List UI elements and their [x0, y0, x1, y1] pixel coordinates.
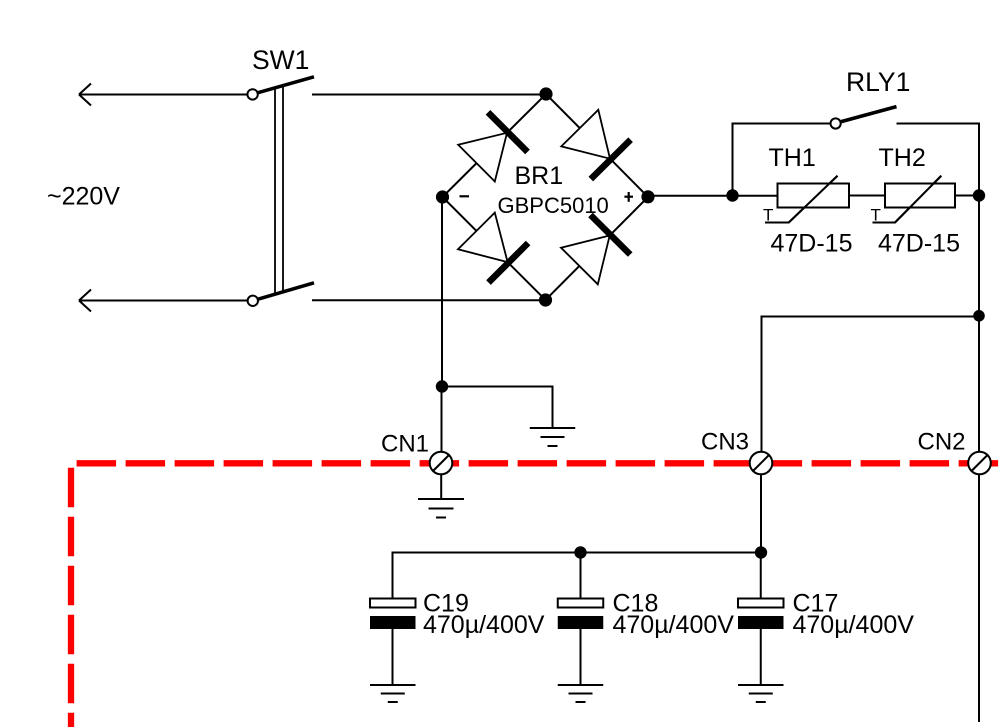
svg-text:TH1: TH1 [769, 144, 816, 172]
svg-text:47D-15: 47D-15 [771, 230, 853, 258]
svg-text:GBPC5010: GBPC5010 [498, 193, 609, 218]
svg-text:47D-15: 47D-15 [878, 230, 960, 258]
svg-text:CN3: CN3 [701, 429, 749, 456]
svg-text:SW1: SW1 [252, 45, 309, 75]
svg-text:470µ/400V: 470µ/400V [613, 611, 735, 639]
svg-text:BR1: BR1 [515, 162, 564, 190]
svg-text:470µ/400V: 470µ/400V [793, 611, 915, 639]
svg-text:T: T [871, 206, 881, 225]
svg-text:CN2: CN2 [918, 429, 966, 456]
svg-text:RLY1: RLY1 [846, 67, 910, 97]
svg-text:~220V: ~220V [47, 183, 120, 211]
svg-text:T: T [763, 206, 773, 225]
svg-text:CN1: CN1 [381, 430, 429, 457]
svg-text:470µ/400V: 470µ/400V [423, 611, 545, 639]
svg-text:TH2: TH2 [879, 144, 926, 172]
